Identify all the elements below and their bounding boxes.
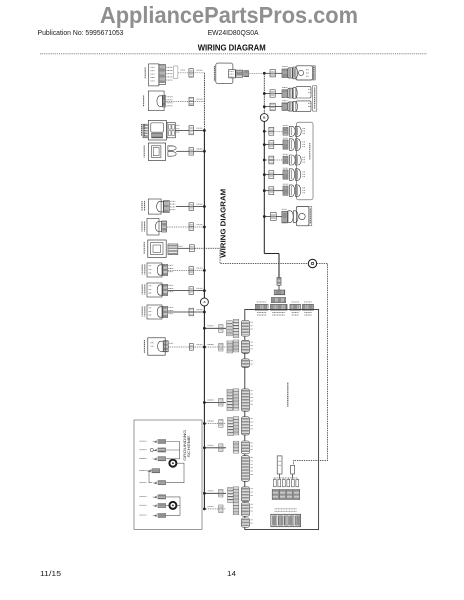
node A (harness splice) xyxy=(200,298,208,306)
svg-text:EW24ID80QS0A: EW24ID80QS0A xyxy=(208,30,259,37)
node B (splice on right bus) xyxy=(260,114,268,122)
wire sump assembly feed xyxy=(263,215,282,218)
splice label trunk to J9 xyxy=(219,505,223,513)
vent assembly M1 xyxy=(142,199,175,214)
connector CON11 xyxy=(189,344,193,351)
drain pump M3 xyxy=(214,63,248,84)
wire thermistor to trunk xyxy=(168,268,206,272)
wire trunk to J2 xyxy=(203,345,226,349)
main control board A3 outline xyxy=(245,310,319,530)
wire float switch to relay feed xyxy=(178,248,328,465)
wire door latch to trunk xyxy=(176,149,206,153)
board connector K1 xyxy=(255,302,268,315)
footer date 11/15 xyxy=(40,569,61,578)
power cord receptacle P1 xyxy=(145,64,178,86)
connector CON9 xyxy=(189,287,194,295)
ground terminal TUB xyxy=(140,448,166,452)
vent fan M2 xyxy=(142,219,167,236)
door switch S4 xyxy=(282,87,311,99)
connector CON13 xyxy=(270,90,275,97)
thermistor RT1 xyxy=(142,263,173,277)
wire spray arm actuator M4 feed xyxy=(263,130,283,133)
wire trunk to J6 xyxy=(203,445,226,449)
ground terminal PWR CORD xyxy=(140,481,166,485)
wire heater element E1 feed xyxy=(263,189,283,192)
ground terminal HEATER xyxy=(140,457,166,461)
board connector J5 xyxy=(241,417,253,435)
board connector J4 xyxy=(241,389,253,411)
detergent dispenser A1 xyxy=(282,66,315,80)
wire vent assembly to trunk xyxy=(176,204,206,208)
wash pump lower M5 xyxy=(283,154,305,165)
wire tags trunk to J4 xyxy=(227,389,239,411)
svg-text:WIRING DIAGRAM: WIRING DIAGRAM xyxy=(198,44,266,53)
connector CON16 xyxy=(269,141,274,149)
heater element E1 xyxy=(283,184,305,196)
board connector K3 xyxy=(290,302,301,315)
wire filter to trunk xyxy=(165,99,204,101)
connector CON14 xyxy=(270,103,275,110)
connector CON7 xyxy=(189,245,194,252)
ground wire motor loop xyxy=(149,463,184,483)
connector CON1 xyxy=(189,69,193,77)
wire dispenser feed xyxy=(264,72,282,74)
power switch S1 xyxy=(142,120,180,140)
splice label trunk to J1 xyxy=(219,325,223,333)
wire pressure sensor to trunk xyxy=(168,288,206,292)
connector CON10 xyxy=(189,308,194,316)
ground terminal MOTOR xyxy=(140,469,160,473)
svg-text:SCHEME: SCHEME xyxy=(187,434,191,457)
splice label trunk to J2 xyxy=(219,343,223,351)
connector CON18 xyxy=(269,171,274,179)
wire turbidity sensor to trunk xyxy=(168,345,205,349)
relay RL1 xyxy=(277,456,282,479)
wire tags trunk to J6 xyxy=(233,441,239,453)
float switch S3 xyxy=(144,240,182,257)
splice label trunk to J4 xyxy=(219,398,223,406)
splice label trunk to J8 xyxy=(219,489,223,497)
wire receptacle to trunk xyxy=(178,70,205,73)
wire tags trunk to J8 xyxy=(228,487,239,503)
vertical label WIRING DIAGRAM xyxy=(219,189,228,258)
svg-text:AppliancePartsPros.com: AppliancePartsPros.com xyxy=(100,2,358,28)
connector CON21 xyxy=(270,213,276,221)
svg-text:WIRING DIAGRAM: WIRING DIAGRAM xyxy=(219,189,228,258)
title WIRING DIAGRAM xyxy=(198,44,266,53)
terminal strip H2 xyxy=(271,298,285,303)
group enclosure SPRAY SYSTEM xyxy=(296,122,313,200)
wire trunk to J5 xyxy=(203,421,226,425)
relay RL2 xyxy=(291,465,295,478)
wire tags trunk to J9 xyxy=(233,503,239,515)
relay bank K5 xyxy=(272,490,300,500)
wire wash pump lower M5 feed xyxy=(263,159,283,162)
board connector J3 xyxy=(241,359,253,368)
wire diverter valve Y2 feed xyxy=(263,143,283,146)
node D (relay feed splice) xyxy=(308,259,316,267)
svg-text:11/15: 11/15 xyxy=(40,569,61,578)
board connector K4 xyxy=(303,302,314,315)
diverter valve Y2 xyxy=(283,138,305,150)
ground wire net to stud GS1 xyxy=(150,442,179,459)
ground wire liner to stud GS2 xyxy=(166,497,180,516)
wire harness trunk W2 (right bus) xyxy=(264,73,279,277)
wire trunk to J1 xyxy=(203,326,226,330)
splice label trunk to J6 xyxy=(219,444,223,452)
connector CON6 xyxy=(189,223,194,231)
publication number xyxy=(38,30,124,37)
spray arm actuator M4 xyxy=(283,126,305,137)
label GROUNDING SCHEME xyxy=(183,429,191,461)
board label MAIN CONTROL BOARD xyxy=(287,383,289,407)
wire harness trunk W1 (left bus) xyxy=(203,73,205,509)
ground terminal NET xyxy=(140,440,166,444)
ground terminal WASH ARM xyxy=(140,513,166,517)
board connector K2 xyxy=(271,302,288,315)
ground stud GS1 xyxy=(169,460,176,467)
board connector J2 xyxy=(241,340,253,353)
door sensor S5 xyxy=(282,101,311,112)
board connector J10 xyxy=(241,518,253,527)
wire water valve to trunk xyxy=(168,310,206,314)
pin numbers P2 xyxy=(275,509,297,512)
connector CON12 xyxy=(270,70,276,77)
board connector J9 xyxy=(241,503,253,517)
connector CON19 xyxy=(269,187,274,195)
connector CON3 xyxy=(189,126,193,135)
pin header H1 xyxy=(274,290,285,295)
connector CON17 xyxy=(269,156,274,164)
board connector J8 xyxy=(241,487,253,502)
wire tags trunk to J1 xyxy=(227,320,239,338)
svg-text:14: 14 xyxy=(227,569,236,578)
splice label trunk to J5 xyxy=(219,420,223,428)
wire wash pump upper M6 feed xyxy=(263,173,283,176)
grounding scheme enclosure xyxy=(134,420,202,529)
connector CON5 xyxy=(189,203,194,211)
ground terminal CENTER xyxy=(140,504,166,508)
model number xyxy=(208,30,259,37)
connector CON4 xyxy=(189,148,194,156)
board connector J7 xyxy=(241,456,253,482)
board connector J1 xyxy=(241,321,253,337)
door latch switch S2 xyxy=(144,143,176,160)
wire trunk to J8 xyxy=(203,491,226,495)
connector CON20 (board feed) xyxy=(277,278,281,291)
wire tags trunk to J5 xyxy=(228,417,239,436)
wire vent fan to trunk xyxy=(167,225,206,229)
wire door sensor feed xyxy=(263,105,282,108)
wire drain pump to trunk W2 xyxy=(249,72,266,75)
pressure sensor B1 xyxy=(142,283,173,297)
ground stud GS2 xyxy=(169,502,176,509)
turbidity sensor B2 xyxy=(144,338,173,355)
water inlet valve Y1 xyxy=(142,305,173,319)
board edge connector P3 xyxy=(271,514,301,526)
sump assembly A2 xyxy=(282,207,312,226)
interference filter F1 xyxy=(144,91,173,111)
connector CON15 xyxy=(269,127,274,135)
connector CON8 xyxy=(189,267,194,275)
wash pump upper M6 xyxy=(283,168,305,180)
wire power switch to trunk xyxy=(175,128,205,132)
connector CON2 xyxy=(189,97,193,105)
wire trunk to J9 xyxy=(203,506,226,510)
footer page number 14 xyxy=(227,569,236,578)
title underline rule xyxy=(40,53,427,55)
board connector J6 xyxy=(241,441,253,454)
wire door switch feed xyxy=(263,92,282,95)
pin header row H3 xyxy=(273,478,298,487)
wire trunk to J4 xyxy=(203,400,226,404)
wire tags trunk to J2 xyxy=(227,340,239,353)
ground terminal LINER xyxy=(140,495,166,499)
page header site watermark xyxy=(100,2,358,28)
svg-text:Publication No: 5995671053: Publication No: 5995671053 xyxy=(38,30,124,37)
label bracket DOOR SWITCH xyxy=(313,86,317,111)
